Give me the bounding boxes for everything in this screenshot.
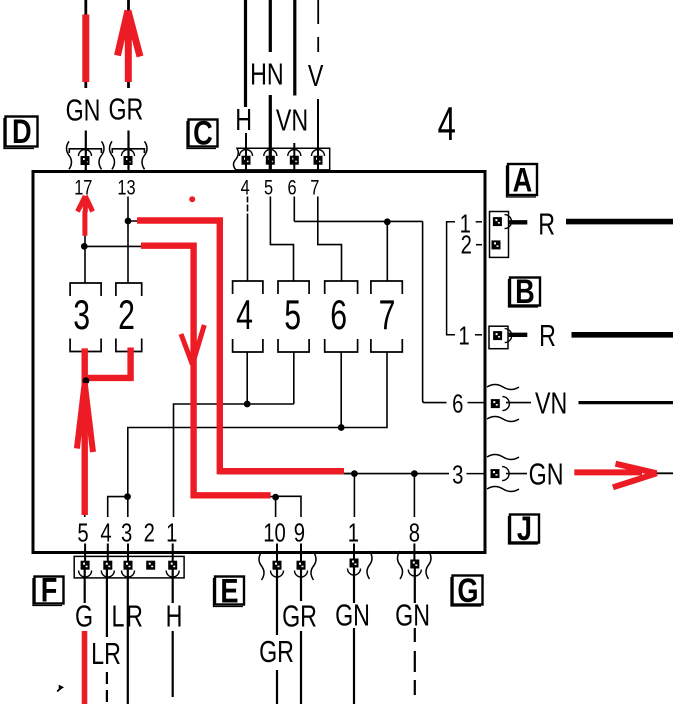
connector F pin1 terminal xyxy=(168,561,177,570)
dash right pin3 xyxy=(467,473,484,475)
svg-text:G: G xyxy=(75,598,93,633)
svg-text:1: 1 xyxy=(348,518,359,547)
wire box5 bottom xyxy=(293,352,295,404)
wire GN (pin17) upper xyxy=(84,0,87,88)
wire VN stub to connector C xyxy=(293,143,295,171)
svg-text:B: B xyxy=(515,272,535,311)
connector B housing xyxy=(489,326,508,349)
wire GR pin9 below xyxy=(300,569,302,601)
connector E pin10 terminal xyxy=(273,561,282,570)
connector D pin17 terminal xyxy=(81,156,90,165)
wire stub B to R xyxy=(509,333,528,337)
svg-text:GR: GR xyxy=(282,598,317,633)
connector B pin1 terminal xyxy=(493,331,502,340)
connector F pin5 terminal xyxy=(81,561,90,570)
wire stub A to R xyxy=(509,220,528,224)
connector F pin2 terminal xyxy=(146,561,155,570)
connector F pin4 terminal xyxy=(103,561,112,570)
connector G pin8 terminal xyxy=(410,560,419,569)
connector E pin9 terminal xyxy=(297,561,306,570)
svg-text:6: 6 xyxy=(330,291,347,338)
svg-text:GR: GR xyxy=(259,634,294,669)
connector F housing xyxy=(74,556,184,578)
svg-text:9: 9 xyxy=(294,518,305,547)
svg-text:V: V xyxy=(308,58,324,93)
red dot stray mark xyxy=(189,196,195,202)
svg-text:GN: GN xyxy=(529,456,564,491)
svg-text:5: 5 xyxy=(264,176,273,199)
wire V lower to connector C xyxy=(317,99,319,171)
junction dot box6 bottom xyxy=(338,424,345,431)
wire GN pin8 below xyxy=(414,568,416,603)
connector G pin1 arc xyxy=(348,569,361,576)
connector A pin2 terminal xyxy=(492,240,501,249)
svg-text:1: 1 xyxy=(166,518,177,547)
connector D pin13 brace left xyxy=(110,141,115,169)
svg-text:5: 5 xyxy=(284,291,301,338)
svg-text:L: L xyxy=(112,598,125,633)
connector C pin6 terminal xyxy=(290,156,299,165)
wire LR pin3 below xyxy=(127,569,129,704)
contact box 3 xyxy=(70,283,101,352)
svg-text:A: A xyxy=(513,161,533,200)
red up arrow on GR top wire xyxy=(118,11,141,83)
svg-text:R: R xyxy=(539,318,556,353)
wire G below connector F xyxy=(84,569,86,603)
wire H pin1 below xyxy=(172,569,174,603)
connector J pin3 brace lower xyxy=(487,487,519,492)
svg-text:G: G xyxy=(457,571,478,610)
svg-text:4: 4 xyxy=(100,518,111,547)
svg-text:4: 4 xyxy=(236,291,253,338)
red junction dot repaint xyxy=(83,377,90,384)
wire GR pin10 lower xyxy=(276,670,278,704)
label box J xyxy=(509,509,540,548)
wire box2 bottom joining pin5 net (under red) xyxy=(85,352,131,379)
red segment on GN top wire xyxy=(82,15,89,83)
connector D pin17 arc xyxy=(79,150,92,157)
contact box 7 xyxy=(371,281,402,352)
svg-text:E: E xyxy=(220,572,238,611)
wire GN pin1 lower xyxy=(353,628,355,704)
red up arrow on G trace xyxy=(77,383,93,452)
connector J pin3 brace upper xyxy=(487,455,519,460)
svg-text:4: 4 xyxy=(241,176,250,199)
wire LR pin4 dashes xyxy=(106,672,108,704)
connector J pin6 terminal xyxy=(491,399,500,408)
label box G xyxy=(451,571,483,610)
wire pin7 to box 6 xyxy=(318,197,342,282)
connector E pin9 arc xyxy=(295,571,308,578)
wire GN pin1 below xyxy=(353,567,355,603)
svg-text:2: 2 xyxy=(118,291,135,338)
svg-text:2: 2 xyxy=(144,518,155,547)
svg-text:6: 6 xyxy=(452,389,463,418)
svg-text:D: D xyxy=(12,112,32,151)
connector J pin3 terminal xyxy=(491,469,500,478)
thick wire R (A row) xyxy=(566,219,673,225)
wire GN output tail xyxy=(656,472,673,474)
connector F pin5 arc xyxy=(79,571,92,578)
red down arrow on pin10 trace xyxy=(181,325,204,365)
svg-text:F: F xyxy=(41,571,58,610)
wire V (pin7) upper dashed xyxy=(317,0,319,52)
svg-text:6: 6 xyxy=(287,176,296,199)
svg-text:GR: GR xyxy=(108,91,143,126)
svg-text:VN: VN xyxy=(276,102,308,137)
connector F pin3 terminal xyxy=(124,561,133,570)
svg-text:4: 4 xyxy=(438,97,456,150)
junction dot right pin8 xyxy=(411,470,418,477)
junction dot pin13 xyxy=(125,218,132,225)
dash right pin1 A to connector xyxy=(476,221,482,223)
junction dot pin6 net / box7 xyxy=(384,218,391,225)
svg-text:GN: GN xyxy=(335,597,370,632)
svg-text:H: H xyxy=(166,598,183,633)
thick wire R (B row) xyxy=(572,332,673,338)
wire GN through connector D xyxy=(85,131,87,172)
connector E pin10 arc xyxy=(271,571,284,578)
svg-text:3: 3 xyxy=(73,291,90,338)
label box B xyxy=(509,272,541,311)
svg-text:2: 2 xyxy=(461,230,472,259)
connector G pin1 terminal xyxy=(350,559,359,568)
wire pin13 to box 2 xyxy=(127,197,129,284)
connector A housing xyxy=(490,212,509,258)
junction dot pin3/pin4 bracket xyxy=(124,493,131,500)
junction dot pin10 xyxy=(272,494,279,501)
wire box4 bottom xyxy=(246,352,248,404)
label box D xyxy=(4,112,38,151)
bracket grouping A1 A2 B1 xyxy=(447,222,455,335)
wire HN (pin5) upper xyxy=(269,0,272,52)
connector F pin4 arc xyxy=(101,571,114,578)
connector F pin3 arc xyxy=(122,571,135,578)
svg-text:R: R xyxy=(538,206,555,241)
connector J pin6 arc xyxy=(502,397,509,411)
connector G pin1 brace xyxy=(367,551,372,579)
connector J pin6 brace upper xyxy=(487,385,519,390)
svg-text:C: C xyxy=(193,114,213,153)
bottom pin stubs E xyxy=(277,544,301,562)
svg-text:H: H xyxy=(235,102,252,137)
contact box 6 xyxy=(325,281,358,352)
bottom pin stubs through box edge F xyxy=(85,544,173,562)
connector D pin17 brace left xyxy=(67,141,72,169)
label box A xyxy=(507,161,538,200)
wire pin4 to box 4 xyxy=(247,197,249,282)
connector A pin1 terminal xyxy=(493,217,502,226)
connector B pin1 arc xyxy=(505,329,512,343)
wire LR pin4 below xyxy=(106,569,108,637)
wire net pin17 branch to pin10 (under red trace) xyxy=(84,246,275,496)
red right arrow at GN output xyxy=(574,464,656,488)
bottom pin stubs G xyxy=(354,544,414,561)
wire box3 bottom to bottom pin 5 (under red) xyxy=(84,352,86,518)
connector C pin7 arc xyxy=(312,150,325,157)
wire bracket pin10 to pin9 xyxy=(276,496,301,517)
svg-text:8: 8 xyxy=(409,518,420,547)
svg-text:J: J xyxy=(517,509,532,548)
dash right pin2 A xyxy=(476,244,482,246)
wire pin17 to box 3 xyxy=(84,197,86,284)
connector C pin7 terminal xyxy=(314,156,323,165)
wire HN lower to connector C xyxy=(269,95,272,171)
red up arrow at pin 17 xyxy=(78,196,93,236)
dash right pin6 xyxy=(468,402,484,404)
connector C pin4 terminal xyxy=(242,156,251,165)
connector J pin3 arc xyxy=(502,467,509,481)
connector G pin8 arc xyxy=(408,570,421,577)
svg-text:7: 7 xyxy=(379,291,396,338)
svg-text:GN: GN xyxy=(66,92,101,127)
connector G pin8 brace left xyxy=(398,551,403,579)
svg-text:10: 10 xyxy=(263,518,286,547)
red trace pin13 to GN output xyxy=(137,221,344,472)
wire GR pin9 lower xyxy=(300,631,302,704)
wire bracket pin3 to pin4 xyxy=(108,497,128,517)
wire H (pin4) upper xyxy=(244,0,247,107)
wire right pin 8 drop xyxy=(413,474,415,517)
connector D pin13 bar xyxy=(112,149,144,153)
label box C xyxy=(187,114,218,153)
connector D pin13 terminal xyxy=(124,156,133,165)
connector C pin4 arc xyxy=(240,150,253,157)
connector C housing xyxy=(234,148,330,170)
component main box outline (switch unit) xyxy=(33,172,485,553)
wire GN output row xyxy=(344,473,449,475)
connector D pin17 brace right xyxy=(99,141,104,169)
connector C pin5 arc xyxy=(264,150,277,157)
svg-text:5: 5 xyxy=(77,518,88,547)
connector E brace left xyxy=(259,552,264,580)
label box F xyxy=(33,571,64,610)
junction dot box4 bottom xyxy=(244,401,251,408)
dash right pin1 B xyxy=(475,334,482,336)
contact box 4 xyxy=(233,281,263,352)
connector F pin1 arc xyxy=(166,571,179,578)
svg-text:VN: VN xyxy=(535,385,567,420)
wire H stub to connector C xyxy=(245,133,247,171)
wire GR (pin13) upper xyxy=(127,0,130,88)
wire box6 bottom xyxy=(340,352,342,428)
wire net box4/box5 to bottom pin 1 xyxy=(174,404,294,517)
wire GR through connector D xyxy=(127,131,129,172)
contact box 2 xyxy=(116,283,142,352)
wire net box7 bottom to bottom pin 3 xyxy=(128,352,387,517)
connector J pin6 brace lower xyxy=(487,417,519,422)
connector C pin5 terminal xyxy=(266,156,275,165)
connector D pin13 brace right xyxy=(142,141,147,169)
svg-text:3: 3 xyxy=(452,460,463,489)
connector E brace right xyxy=(311,552,316,580)
wire right pin 1 (G conn) drop xyxy=(353,474,355,517)
wire pin5 to box 5 xyxy=(270,197,293,282)
svg-text:1: 1 xyxy=(458,321,469,350)
junction dot right pin1 xyxy=(351,470,358,477)
connector C pin6 arc xyxy=(288,150,301,157)
wire GN pin8 lower dashed xyxy=(414,628,416,704)
svg-text:7: 7 xyxy=(310,176,319,199)
connector G pin8 brace right xyxy=(426,551,431,579)
wire connector to GN label xyxy=(506,473,527,475)
junction dot pin5 net xyxy=(83,377,90,384)
svg-text:LR: LR xyxy=(91,636,121,671)
svg-text:13: 13 xyxy=(117,176,135,199)
red trace pin17-branch to pin10 xyxy=(141,246,271,496)
wire VN output xyxy=(579,401,673,404)
junction dot pin17 branch xyxy=(81,243,88,250)
svg-text:R: R xyxy=(126,598,143,633)
connector D pin13 arc xyxy=(122,150,135,157)
wire net pin13 to GN output (under red trace) xyxy=(128,221,354,474)
wire H pin1 lower xyxy=(172,631,174,697)
wire VN (pin6) upper xyxy=(293,0,296,96)
red wire G lower xyxy=(82,631,88,704)
wire pin6 net to box 7 and right pin 6 xyxy=(294,197,446,403)
small black arrow bottom left xyxy=(59,685,64,691)
svg-text:GN: GN xyxy=(395,597,430,632)
connector A pin1 arc xyxy=(505,215,512,229)
contact box 5 xyxy=(278,281,309,352)
wire GR pin10 below xyxy=(276,569,278,635)
connector D pin17 bar xyxy=(69,149,101,153)
red trace box3/box2 to bottom pin5 xyxy=(85,348,131,516)
svg-text:3: 3 xyxy=(121,518,132,547)
label box E xyxy=(214,572,245,611)
svg-text:HN: HN xyxy=(250,56,284,91)
wire connector to VN label xyxy=(506,402,531,404)
